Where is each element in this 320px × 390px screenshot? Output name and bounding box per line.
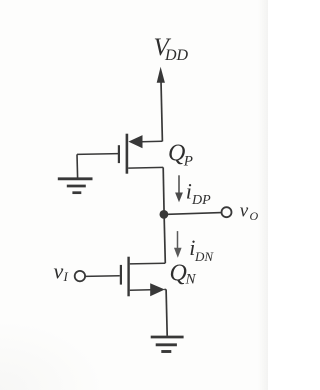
svg-text:v: v [54, 259, 64, 284]
svg-text:DD: DD [164, 47, 189, 64]
svg-text:DP: DP [191, 193, 211, 208]
svg-text:O: O [250, 209, 259, 223]
svg-text:N: N [185, 272, 197, 288]
svg-text:i: i [186, 178, 192, 203]
svg-text:Q: Q [170, 261, 187, 287]
svg-text:Q: Q [168, 141, 185, 167]
svg-text:DN: DN [194, 249, 214, 264]
svg-text:v: v [240, 201, 249, 222]
svg-text:P: P [183, 154, 193, 170]
svg-text:I: I [63, 269, 69, 284]
